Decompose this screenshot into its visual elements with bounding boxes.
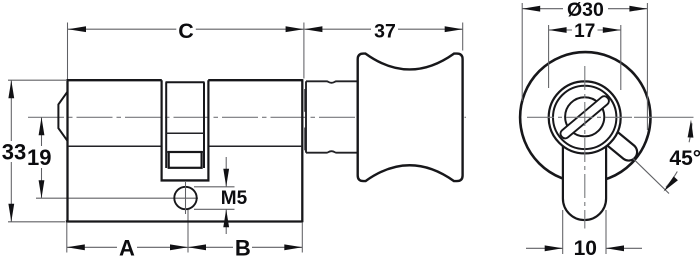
arrow A left [67, 244, 85, 250]
rose circle D30 [520, 52, 650, 182]
svg-text:19: 19 [27, 145, 51, 170]
knob collar outer circle [549, 81, 621, 153]
extension line 37 right (x=462.7) [462, 23, 464, 51]
extension line B right (x=302.3) [301, 223, 303, 253]
extension line M5 bottom (y=209.3) [194, 208, 235, 210]
centerline cylinder axis (side view) [28, 116, 466, 118]
cam tower inner top [166, 81, 205, 83]
leader M5 upper [225, 157, 227, 187]
45 deg arc upper segment [689, 123, 692, 142]
svg-text:33: 33 [2, 140, 26, 165]
extension line 10 right (x=606) [605, 210, 607, 254]
plug circle [565, 97, 604, 136]
extension line M5 top (y=186.8) [194, 186, 235, 188]
thumbturn grip stem (vertical position) [563, 146, 606, 221]
extension line M5 hole center (y=198.2) [36, 197, 198, 199]
svg-text:45°: 45° [669, 147, 700, 170]
extension line 10 left (x=562.7) [562, 210, 564, 254]
arrow 10 left [545, 245, 563, 251]
cam inner block [169, 152, 202, 168]
arrow D30 left [522, 6, 540, 12]
extension line 17 right (x=620.8) [620, 25, 622, 90]
cam tower bottom [161, 179, 210, 181]
cam tower inner right [203, 82, 205, 168]
neck rear edge segments [304, 89, 306, 112]
leader M5 lower [225, 209, 227, 234]
arrow 33 down [8, 204, 14, 222]
dimension line 33 [10, 80, 12, 141]
grip axis line at 45 deg [633, 159, 669, 194]
cylinder body left face [66, 79, 68, 222]
cam tower outer left [161, 80, 163, 180]
arrow 45 bottom [664, 176, 678, 191]
extension line 17 left (x=548.6) [548, 25, 550, 88]
svg-text:10: 10 [574, 237, 597, 257]
cam tower outer right [207, 80, 209, 180]
svg-text:C: C [178, 19, 194, 43]
extension line D30 right (x=647.4) [646, 3, 648, 130]
M5 hole vertical centermark [185, 182, 187, 214]
dimension line C [68, 28, 176, 30]
arrow D30 right [629, 6, 647, 12]
arrow 19 down [39, 180, 45, 198]
cylinder body right edge [301, 79, 303, 222]
profile shoulder line [68, 145, 161, 147]
svg-text:B: B [235, 235, 251, 257]
arrow B left [188, 244, 206, 250]
arrow 19 up [39, 117, 45, 135]
extension line D30 left (x=522.2) [521, 3, 523, 101]
arrow M5 up [223, 209, 229, 227]
cam tower lower line [166, 151, 204, 153]
extension line A/B middle (x=188) [187, 210, 189, 253]
horizontal centerline (front view) [527, 116, 634, 118]
svg-text:M5: M5 [221, 188, 248, 209]
cam tower inner left [165, 82, 167, 168]
plug cap chamfered end [58, 92, 67, 141]
extension line 33 top (y=80.2) [8, 79, 66, 81]
neck left edge [305, 81, 307, 152]
45 deg arc lower segment [666, 172, 677, 188]
arrow 10 right [606, 245, 624, 251]
svg-text:17: 17 [574, 21, 595, 42]
arrow C right [286, 26, 304, 32]
dimension line 19 [41, 117, 43, 146]
dimension line 10 left [526, 247, 563, 249]
arrow B right [284, 244, 302, 250]
extension line shared C/37 (x=303.9) [303, 23, 305, 79]
turn grip bar [560, 96, 608, 138]
thumbturn knob (side view) [358, 54, 463, 182]
dimension line 37 [304, 28, 371, 30]
vertical centerline (front view) [584, 66, 586, 229]
extension line C left (x=67.5) [67, 23, 69, 80]
extension line A left (x=66.8) [66, 223, 68, 253]
extension line 33 bottom (y=221.8) [8, 221, 65, 223]
arrow A right [170, 244, 188, 250]
cylinder body top edge [67, 79, 162, 81]
dimension line B [188, 246, 233, 248]
arrow M5 down [223, 169, 229, 187]
M5 hole circle [174, 187, 196, 209]
dimension line A [67, 246, 117, 248]
svg-text:A: A [119, 235, 135, 257]
arrow 37 right [445, 26, 463, 32]
arrow C left [68, 26, 86, 32]
cylinder body bottom edge [66, 220, 303, 222]
cam tower mid line [166, 132, 204, 134]
neck top edge with clip groove [306, 81, 357, 83]
svg-text:37: 37 [374, 20, 396, 42]
thumbturn grip at 45 deg (ghost position) [592, 120, 637, 160]
arrow 17 left [549, 27, 567, 33]
dimension line 17 [549, 29, 572, 31]
svg-text:Ø30: Ø30 [567, 0, 604, 21]
neck bottom edge with clip groove [306, 151, 357, 153]
arrow 17 right [603, 27, 621, 33]
arrow 37 left [304, 26, 322, 32]
arrow 33 up [8, 80, 14, 98]
dimension line D30 [522, 8, 563, 10]
dimension line 10 right [606, 247, 642, 249]
knob collar inner circle [553, 86, 616, 149]
arrow 45 top [688, 120, 694, 138]
